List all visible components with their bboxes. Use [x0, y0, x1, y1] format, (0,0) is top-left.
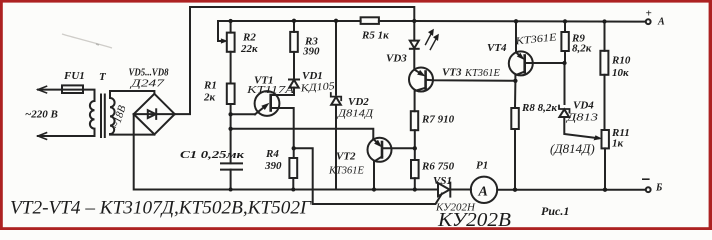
svg-text:Д814Д: Д814Д — [337, 109, 375, 120]
pencil smudge top left — [62, 34, 112, 48]
junction R10 top on plus rail — [602, 19, 606, 23]
junction node x414 on plus rail — [412, 19, 416, 23]
svg-text:8,2к: 8,2к — [572, 43, 592, 55]
junction R1/C1/VT2 node — [228, 127, 232, 131]
wire R9 top to plus rail — [564, 21, 566, 32]
transistor VT4 КТ361Е — [509, 51, 565, 80]
wire R10 bottom to R11 top — [604, 75, 606, 130]
svg-text:R6 750: R6 750 — [421, 161, 455, 173]
resistor R4 — [289, 158, 297, 178]
wire VT4 collector node to R8 top — [514, 81, 516, 108]
resistor R11 (with wiper) — [602, 130, 609, 148]
wire node R1/C1 to VT2 emitter — [231, 129, 374, 139]
svg-text:С1 0,25мк: С1 0,25мк — [180, 149, 245, 161]
wire mains top lead with arrow — [38, 86, 95, 101]
resistor R9 — [561, 32, 568, 51]
svg-text:2к: 2к — [203, 92, 216, 104]
transistor VT2 КТ361Е — [368, 138, 416, 190]
wire R4 bottom to minus rail — [292, 178, 294, 190]
svg-text:VT3: VT3 — [442, 67, 462, 79]
wire R9 bottom to VT4 base node and VD4 cathode — [564, 51, 567, 104]
resistor R5 (series in plus rail) — [361, 17, 379, 24]
svg-text:R1: R1 — [203, 80, 217, 92]
junction VD2 top on plus rail — [334, 19, 338, 23]
svg-text:R7 910: R7 910 — [421, 114, 455, 126]
wire secondary bottom to bridge AC input — [110, 133, 154, 136]
wire R2 bottom to R1 top — [230, 52, 232, 84]
wire R3 top lead — [293, 21, 295, 32]
wire R7 bottom to R6 top through VT2 base node — [414, 130, 416, 160]
svg-text:R5 1к: R5 1к — [361, 30, 389, 42]
bridge rectifier VD5...VD8 Д247 — [134, 94, 175, 135]
junction VT2 collector on minus rail — [372, 187, 376, 191]
transformer T secondary winding — [110, 98, 115, 134]
junction VT1 B1 / R4 / gate node — [292, 146, 296, 150]
svg-text:Б: Б — [655, 183, 663, 194]
svg-text:КУ202В: КУ202В — [437, 209, 511, 230]
resistor R3 — [290, 32, 298, 52]
LED VD3 — [410, 30, 439, 70]
wire bridge plus output up and along top rail to node at x414 — [175, 7, 415, 114]
wire VD2 column from plus node to minus rail — [335, 21, 337, 190]
svg-text:~220 В: ~220 В — [25, 109, 58, 121]
junction C1 on minus rail — [229, 188, 233, 192]
svg-text:КТ361Е: КТ361Е — [328, 166, 365, 177]
svg-text:(Д814Д): (Д814Д) — [550, 141, 595, 156]
svg-text:КТ361Е: КТ361Е — [464, 68, 501, 79]
svg-text:R2: R2 — [242, 32, 256, 44]
svg-text:Рис.1: Рис.1 — [541, 204, 569, 218]
wire supply rail R2/R3/VD2 node to R5 left — [231, 20, 361, 22]
svg-text:R10: R10 — [611, 55, 631, 67]
wire VT4 emitter to plus rail — [515, 21, 517, 52]
junction VT3 base / VT4 collector / R8 node — [513, 79, 517, 83]
wire secondary top to bridge AC input — [110, 91, 154, 98]
resistor R2 (trimmer) — [227, 33, 235, 52]
svg-text:R4: R4 — [265, 148, 279, 160]
resistor R1 — [227, 84, 235, 105]
junction R2 top on plus rail — [228, 19, 232, 23]
wire VD4 anode to R11 wiper — [564, 117, 601, 140]
junction R11 on minus rail — [603, 188, 607, 192]
resistor R7 — [411, 111, 418, 130]
junction R9 top on plus rail — [563, 19, 567, 23]
svg-text:10к: 10к — [612, 67, 629, 79]
wire node x414 along plus rail to terminal A — [414, 20, 646, 23]
junction VT4 emitter on plus rail — [514, 19, 518, 23]
svg-text:Д813: Д813 — [566, 113, 598, 124]
svg-text:+: + — [646, 8, 652, 20]
svg-text:390: 390 — [302, 46, 320, 58]
wire R10 top to plus rail — [604, 22, 606, 51]
wire R3 bottom to VD1 cathode — [293, 52, 295, 79]
transistor VT1 (unijunction КТ117А) — [255, 91, 294, 148]
resistor R6 — [411, 160, 419, 178]
wire R6 bottom to minus rail — [414, 178, 416, 189]
junction R3 top on plus rail — [292, 19, 296, 23]
svg-text:R8 8,2к: R8 8,2к — [521, 102, 557, 114]
svg-text:VD4: VD4 — [573, 100, 594, 112]
wire R2 wiper tap — [218, 21, 231, 43]
wire C1 bottom to minus rail — [230, 170, 232, 190]
svg-text:22к: 22к — [240, 43, 258, 55]
diode VD1 КД105 — [289, 80, 299, 96]
junction VT1 emitter node — [228, 112, 232, 116]
wire R11 bottom to minus rail — [604, 148, 606, 189]
junction R6 on minus rail — [413, 187, 417, 191]
wire VS1 gate line from node B1 — [294, 148, 442, 204]
svg-text:390: 390 — [264, 160, 282, 172]
svg-text:VD3: VD3 — [386, 53, 407, 65]
wire bridge minus output down and along bottom rail to VS1 anode — [134, 114, 438, 189]
svg-text:КТ117А: КТ117А — [246, 85, 295, 96]
svg-text:Д247: Д247 — [130, 78, 165, 90]
svg-text:VD2: VD2 — [348, 96, 369, 108]
junction VT2 base / R7 / R6 node — [413, 146, 417, 150]
transformer T primary winding — [90, 101, 95, 129]
terminal A plus output — [646, 19, 651, 24]
svg-text:1к: 1к — [612, 138, 624, 150]
svg-text:VT2: VT2 — [336, 151, 356, 163]
svg-text:VS1: VS1 — [433, 175, 452, 187]
zener VD2 Д814Д — [331, 93, 341, 105]
junction VT4 base / R9 / VD4 node — [562, 61, 566, 65]
svg-text:VD1: VD1 — [302, 70, 323, 82]
transistor VT3 КТ361Е — [409, 68, 515, 112]
wire ammeter to terminal B — [497, 189, 646, 191]
zener VD4 Д813 — [559, 106, 570, 118]
wire mains bottom lead with arrow — [38, 129, 95, 139]
svg-text:P1: P1 — [476, 160, 488, 172]
svg-text:VT2-VТ4 – КТ3107Д,КТ502В,КТ502: VT2-VТ4 – КТ3107Д,КТ502В,КТ502Г — [10, 198, 312, 219]
transformer T core — [101, 95, 105, 138]
junction R8 on minus rail — [513, 188, 517, 192]
svg-text:А: А — [478, 185, 488, 200]
junction R4 on minus rail — [291, 188, 295, 192]
wire R8 bottom to minus rail — [514, 129, 516, 190]
resistor R10 — [600, 51, 608, 75]
wire R2 top lead — [230, 21, 232, 33]
svg-text:А: А — [657, 17, 665, 28]
terminal B minus output — [643, 179, 651, 192]
wire R5 right to node at x414 — [379, 20, 414, 22]
thyristor VS1 КУ202Н — [438, 183, 471, 197]
resistor R8 — [511, 108, 519, 129]
wire R1 bottom to C1 top — [230, 104, 232, 163]
capacitor C1 — [221, 163, 242, 169]
border frame red — [0, 0, 712, 3]
svg-text:VT4: VT4 — [487, 42, 507, 54]
svg-text:FU1: FU1 — [63, 70, 85, 82]
fuse FU1 — [62, 85, 83, 93]
wire node x414 down to VD3 anode — [413, 21, 415, 40]
ammeter P1 — [471, 177, 497, 203]
wire node B1 to R4 top — [293, 148, 295, 158]
wire VT1 emitter lead — [231, 113, 255, 115]
